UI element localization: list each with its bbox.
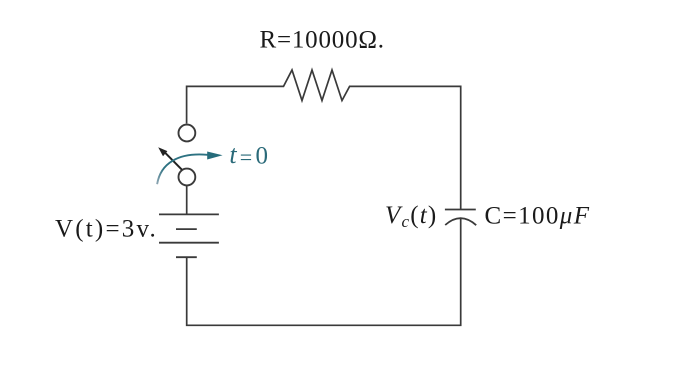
svg-text:t=0: t=0	[229, 140, 268, 170]
svg-text:C=100μF: C=100μF	[485, 202, 591, 229]
svg-text:Vc(t): Vc(t)	[385, 202, 437, 231]
svg-text:V(t)=3v.: V(t)=3v.	[55, 216, 158, 243]
svg-text:R=10000Ω.: R=10000Ω.	[260, 27, 385, 54]
